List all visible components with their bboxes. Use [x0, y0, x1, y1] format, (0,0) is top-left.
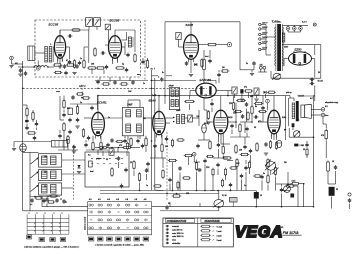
- wire: [239, 22, 241, 70]
- wire: [154, 135, 156, 142]
- svg-text:a: a: [45, 213, 46, 215]
- capacitor C9: [208, 59, 211, 64]
- wire: [245, 172, 247, 191]
- resistor R25: [256, 142, 258, 152]
- resistor R6: [115, 67, 125, 69]
- wire: [122, 46, 126, 48]
- wire: [36, 120, 38, 122]
- svg-text:2 watt: 2 watt: [217, 234, 222, 237]
- capacitor C42: [68, 34, 73, 37]
- switch label box: [39, 238, 45, 242]
- svg-text:elettrolitici: elettrolitici: [172, 242, 181, 245]
- aerial input coil L1: [28, 46, 35, 61]
- svg-text:10: 10: [260, 195, 262, 197]
- svg-text:pick-up: pick-up: [286, 92, 292, 94]
- pilot lamp LP1: [286, 27, 290, 31]
- filter capacitor C11 50+50: [310, 78, 323, 85]
- tone pot P3: [284, 186, 291, 193]
- wire: [13, 142, 15, 148]
- wire: [85, 140, 87, 142]
- capacitor C45: [113, 80, 116, 85]
- wire: [220, 96, 222, 108]
- svg-text:2n: 2n: [143, 83, 145, 85]
- wire: [227, 91, 229, 96]
- resistor R80: [177, 181, 179, 190]
- tuning link dashed: [72, 145, 74, 200]
- AM coil pack OM: [39, 154, 62, 167]
- resistor R7: [207, 43, 218, 45]
- wire: [261, 181, 263, 191]
- resistor R30: [122, 146, 132, 148]
- wire: [164, 96, 166, 104]
- wire: [282, 44, 321, 46]
- wire: [217, 135, 219, 142]
- capacitor C34: [117, 156, 120, 161]
- heater terminal: [313, 23, 316, 26]
- capacitor C39: [244, 166, 247, 171]
- capacitor C12: [334, 165, 337, 170]
- resistor R10: [327, 160, 330, 172]
- svg-text:a: a: [29, 213, 30, 215]
- wire: [218, 70, 220, 72]
- loudspeaker: [301, 104, 311, 118]
- capacitor C77: [197, 168, 202, 171]
- svg-text:a: a: [62, 213, 63, 215]
- switch key buttons: [88, 237, 148, 241]
- capacitor C48: [68, 130, 71, 135]
- resistor R45: [71, 29, 81, 31]
- svg-text:0,1: 0,1: [88, 155, 91, 157]
- wire: [204, 165, 206, 191]
- IF coil L5: [137, 110, 142, 117]
- svg-text:conv.: conv.: [56, 91, 61, 93]
- capacitor C47: [62, 113, 65, 118]
- wire: [256, 95, 258, 98]
- wire: [169, 202, 171, 207]
- capacitor C58: [124, 168, 127, 173]
- resistor R74: [34, 197, 42, 199]
- resistor R29: [98, 146, 108, 148]
- tone network resistor R40: [267, 158, 269, 168]
- wire: [62, 187, 73, 189]
- wire: [313, 96, 315, 207]
- trimmer C23: [254, 88, 259, 95]
- transformer secondary winding: [282, 27, 283, 30]
- resistor R4: [87, 67, 97, 69]
- capacitor C59: [260, 175, 263, 180]
- ground: [58, 66, 62, 68]
- wire: [114, 30, 116, 33]
- capacitor C66: [245, 127, 248, 132]
- wire: [292, 127, 294, 130]
- wire: [233, 96, 235, 101]
- wire: [190, 59, 192, 73]
- resistor R49: [63, 99, 65, 109]
- resistor R12: [66, 64, 76, 66]
- wire: [193, 156, 195, 162]
- AGC dashed drop: [81, 88, 83, 97]
- wire: [285, 96, 287, 140]
- left bus wire: [22, 67, 24, 211]
- wire: [165, 122, 170, 124]
- coupling blob: [292, 123, 295, 127]
- hum pot R27: [293, 131, 300, 138]
- wire: [18, 66, 34, 68]
- capacitor C52: [123, 139, 126, 144]
- resistor R58: [221, 70, 230, 72]
- capacitor C67: [210, 102, 213, 107]
- capacitor C26: [249, 149, 252, 154]
- svg-text:25: 25: [303, 149, 305, 151]
- capacitor C64: [254, 115, 259, 118]
- wire: [218, 207, 220, 210]
- svg-text:2a: 2a: [80, 102, 82, 104]
- IF coil L9: [175, 90, 178, 97]
- wire: [314, 95, 315, 97]
- wire: [29, 159, 32, 161]
- core arrow: [31, 185, 39, 192]
- svg-text:ECC85: ECC85: [110, 19, 120, 23]
- resistor R52: [92, 141, 94, 151]
- ground: [264, 153, 268, 155]
- wire: [60, 119, 64, 121]
- junction dot: [235, 121, 237, 123]
- wire: [59, 58, 61, 64]
- svg-text:ECC85: ECC85: [49, 23, 59, 27]
- wire: [287, 30, 289, 32]
- capacitor C71: [25, 119, 28, 124]
- wire: [273, 96, 275, 108]
- resistor R18: [267, 91, 276, 93]
- junction dot: [166, 193, 168, 195]
- svg-text:CONDENSATORI: CONDENSATORI: [167, 220, 187, 223]
- oscillator coil L2: [128, 37, 131, 47]
- svg-text:MOD.: MOD.: [278, 227, 284, 229]
- bottom bus wire: [42, 206, 88, 208]
- ground: [72, 73, 76, 75]
- wire: [35, 52, 45, 54]
- wire: [198, 44, 206, 46]
- svg-text:3aMF: 3aMF: [176, 110, 180, 112]
- resistor R28: [27, 132, 37, 134]
- wire: [95, 79, 148, 81]
- capacitor C35: [145, 168, 148, 173]
- resistor R22: [254, 102, 264, 104]
- wire: [312, 58, 315, 60]
- junction dot: [22, 88, 24, 90]
- mains voltage taps: [259, 23, 261, 25]
- ground: [189, 75, 193, 77]
- wire: [42, 198, 45, 200]
- ground: [9, 66, 13, 68]
- svg-text:125 V: 125 V: [262, 42, 268, 44]
- junction dot: [33, 66, 35, 68]
- diode tube D2: [202, 124, 207, 133]
- wire: [189, 96, 191, 100]
- ground: [77, 172, 81, 174]
- wire: [104, 117, 122, 119]
- wire: [100, 193, 219, 195]
- input transformer T1: [45, 47, 48, 63]
- capacitor C14: [19, 68, 22, 73]
- switch label box: [50, 238, 56, 242]
- wire: [32, 110, 34, 113]
- capacitor C43: [64, 71, 67, 76]
- capacitor C24: [245, 102, 248, 107]
- resistor R38: [236, 158, 238, 168]
- wire: [105, 44, 109, 46]
- wire: [271, 77, 321, 79]
- resistor R89: [253, 175, 261, 177]
- mains plug terminals: [259, 66, 262, 69]
- AM coil pack OL: [39, 183, 62, 195]
- tuning gang section CV2: [94, 18, 101, 27]
- resistor R39: [222, 157, 232, 159]
- capacitor C50: [84, 143, 87, 148]
- svg-text:150: 150: [239, 150, 242, 152]
- wire: [203, 133, 205, 140]
- wire: [30, 196, 60, 198]
- svg-text:220 V: 220 V: [262, 23, 268, 25]
- output transformer T.U. core: [296, 101, 299, 121]
- wire: [235, 103, 237, 116]
- resistor R69: [67, 135, 69, 145]
- IF coil L6: [126, 124, 131, 132]
- resistor R90: [221, 179, 223, 188]
- resistor R3: [134, 53, 136, 63]
- tone network resistor R42: [267, 174, 269, 184]
- wire: [215, 80, 217, 83]
- wire: [294, 185, 298, 187]
- diode D3: [264, 91, 267, 94]
- wire: [284, 58, 289, 60]
- capacitor C19: [68, 118, 71, 123]
- resistor R63: [234, 110, 243, 112]
- svg-text:25: 25: [130, 162, 132, 164]
- capacitor C55: [196, 144, 199, 149]
- power transformer core: [276, 24, 282, 71]
- wire: [97, 96, 99, 110]
- wire: [234, 94, 236, 98]
- wire: [127, 136, 129, 141]
- pilot lamp LP2: [293, 27, 297, 31]
- junction dot: [111, 147, 113, 149]
- wire: [270, 71, 272, 78]
- svg-text:rivel.: rivel.: [205, 55, 209, 58]
- capacitor C31: [55, 198, 58, 203]
- pickup connector: [348, 198, 351, 203]
- phono jack J1: [227, 42, 231, 46]
- capacitor C65: [230, 124, 233, 129]
- svg-text:160 V: 160 V: [262, 33, 268, 35]
- wire: [275, 177, 277, 191]
- wire: [217, 169, 219, 176]
- ground: [206, 122, 210, 124]
- wire: [144, 117, 153, 119]
- wire: [88, 103, 98, 105]
- switch label box: [60, 238, 65, 242]
- resistor R87: [229, 167, 237, 169]
- wire: [59, 30, 61, 33]
- wire: [203, 50, 205, 58]
- wire: [88, 26, 90, 30]
- svg-text:carta 1000 V≤: carta 1000 V≤: [172, 232, 183, 235]
- vertical bus: [151, 70, 153, 190]
- svg-text:2aMF: 2aMF: [152, 95, 156, 97]
- capacitor C76: [203, 159, 206, 164]
- diode D4: [77, 165, 80, 168]
- resistor R15: [184, 100, 195, 102]
- capacitor C41: [101, 51, 106, 54]
- resistor R44: [94, 47, 96, 57]
- capacitor C4: [126, 53, 129, 58]
- resistor R11: [53, 64, 63, 66]
- junction dot: [139, 190, 141, 192]
- wire: [209, 50, 211, 58]
- wire: [62, 173, 85, 175]
- wire: [172, 162, 174, 190]
- wire: [158, 96, 160, 109]
- wire: [14, 141, 52, 143]
- resistor R62: [306, 148, 308, 157]
- switch label box: [27, 235, 32, 239]
- wire: [178, 40, 180, 48]
- component box: [52, 141, 68, 148]
- junction dot: [151, 80, 153, 82]
- resistor R16: [203, 58, 206, 71]
- junction dot: [151, 88, 153, 90]
- capacitor C27: [264, 142, 267, 147]
- wire: [190, 90, 196, 92]
- wire: [59, 30, 61, 33]
- wire: [273, 134, 275, 140]
- indicator tube V10: [277, 140, 282, 147]
- resistor R23: [235, 144, 237, 154]
- wire: [139, 183, 141, 191]
- resistor R75: [47, 201, 55, 203]
- svg-text:50+50: 50+50: [318, 81, 323, 83]
- ground: [75, 126, 79, 128]
- capacitor C25: [261, 106, 264, 111]
- wire: [22, 151, 24, 154]
- capacitor C86: [216, 163, 219, 168]
- svg-text:1n: 1n: [146, 185, 148, 187]
- wire: [240, 69, 254, 71]
- capacitor C62: [243, 145, 246, 150]
- wire: [331, 197, 333, 209]
- tuning gang section CV1: [86, 18, 93, 27]
- value table frame: [163, 218, 233, 247]
- wire: [86, 149, 108, 151]
- wire: [250, 155, 252, 162]
- junction dot: [102, 147, 104, 149]
- resistor R9: [325, 129, 328, 140]
- junction dot: [34, 196, 36, 198]
- wire: [23, 151, 39, 153]
- capacitor C84: [141, 144, 144, 149]
- IF coil L8: [171, 90, 174, 97]
- svg-text:100: 100: [165, 146, 168, 148]
- capacitor C73: [45, 197, 48, 202]
- wire: [77, 104, 79, 107]
- wire: [228, 121, 236, 123]
- resistor R67: [207, 110, 209, 120]
- junction dot: [97, 95, 99, 97]
- wire: [155, 189, 163, 192]
- wire: [88, 30, 90, 63]
- tube V8 EL84: [268, 107, 280, 136]
- FM enclosure inner dashed edge: [144, 20, 146, 80]
- svg-text:1 watt: 1 watt: [217, 230, 222, 233]
- svg-text:ECH81: ECH81: [97, 101, 107, 105]
- junction dot: [22, 66, 24, 68]
- resistor R36: [195, 161, 197, 171]
- resistor R1: [73, 59, 75, 69]
- resistor R72: [146, 59, 148, 69]
- wire: [249, 168, 251, 174]
- vertical bus: [154, 78, 156, 190]
- wire: [127, 100, 129, 108]
- resistor R84: [171, 139, 173, 148]
- wire: [236, 169, 238, 191]
- resistor R71: [32, 111, 34, 121]
- wire: [244, 122, 246, 133]
- ground: [72, 151, 76, 153]
- svg-text:ceramici: ceramici: [172, 225, 179, 228]
- svg-text:A 25: A 25: [292, 180, 296, 183]
- resistor R48: [120, 83, 129, 85]
- junction dot: [173, 117, 175, 119]
- resistor R76: [206, 155, 214, 157]
- svg-text:gruppo: gruppo: [96, 157, 101, 160]
- FM tuner unit dashed enclosure: [35, 20, 141, 77]
- antenna loop: [20, 144, 27, 152]
- resistor R78: [291, 183, 300, 185]
- wire: [22, 61, 24, 67]
- svg-text:6AQ5: 6AQ5: [228, 116, 233, 119]
- svg-text:8n: 8n: [255, 106, 257, 108]
- wire: [63, 132, 65, 151]
- resistor R31: [133, 160, 135, 170]
- capacitor C15: [63, 64, 66, 69]
- capacitor C51: [106, 143, 109, 148]
- component in box: [89, 161, 93, 167]
- electrolytic C28: [294, 144, 298, 147]
- capacitor C69: [58, 134, 61, 139]
- wire: [282, 190, 291, 192]
- capacitor C81: [168, 178, 171, 183]
- resistor R70: [26, 107, 28, 117]
- capacitor C63: [241, 114, 244, 119]
- resistor R61: [111, 167, 113, 177]
- trimmer C21: [232, 87, 237, 94]
- wire: [327, 173, 329, 184]
- capacitor C49: [90, 106, 93, 111]
- diode D1: [194, 63, 197, 66]
- switch unit box: [85, 152, 129, 187]
- electrolytic capacitor C13: [329, 187, 335, 196]
- capacitor C83: [110, 138, 113, 143]
- capacitor C32: [62, 199, 65, 204]
- wire: [262, 96, 264, 105]
- wire: [260, 69, 262, 72]
- resistor legend rows: [200, 224, 222, 241]
- aerial terminal: [10, 56, 14, 60]
- wire: [230, 136, 250, 138]
- capacitor C40: [280, 188, 283, 193]
- capacitor C79: [24, 71, 27, 76]
- capacitor C10: [252, 61, 255, 66]
